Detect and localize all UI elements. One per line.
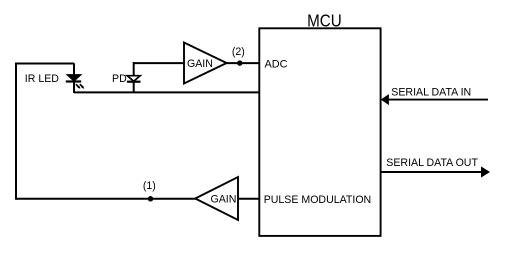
- arrowhead out (serial data out): [481, 166, 490, 177]
- wire MCU pulse modulation to gain amp input: [238, 198, 260, 200]
- arrowhead into MCU (serial data in): [381, 94, 389, 105]
- wire SERIAL DATA IN: [386, 99, 488, 101]
- wire PD cathode to gain amp input: [134, 62, 185, 64]
- svg-text:(1): (1): [143, 180, 156, 192]
- svg-text:ADC: ADC: [265, 58, 288, 70]
- wire gain amp output to ADC: [226, 62, 260, 64]
- photodiode PD: [127, 62, 141, 93]
- MCU box U1: [259, 28, 380, 236]
- svg-text:MCU: MCU: [307, 11, 342, 31]
- svg-text:SERIAL DATA IN: SERIAL DATA IN: [391, 87, 471, 99]
- wire SERIAL DATA OUT: [381, 171, 482, 173]
- wire common bottom line LED/PD to MCU: [74, 91, 260, 93]
- node (1) junction dot: [143, 180, 156, 202]
- svg-text:GAIN: GAIN: [210, 193, 236, 205]
- op-amp GAIN (top, receive amplifier): [184, 43, 227, 84]
- LED IR LED: [66, 63, 84, 93]
- svg-text:(2): (2): [232, 46, 245, 58]
- op-amp GAIN (bottom, drive amplifier): [195, 177, 238, 220]
- svg-text:PD: PD: [112, 73, 127, 85]
- svg-text:IR LED: IR LED: [25, 73, 59, 85]
- node (2) junction dot: [232, 46, 245, 66]
- svg-text:PULSE MODULATION: PULSE MODULATION: [264, 194, 372, 206]
- wire top-left horizontal to IR LED anode: [15, 63, 74, 65]
- wire left vertical feedback line: [15, 63, 17, 200]
- wire gain amp output to left feedback line: [16, 198, 196, 200]
- svg-text:GAIN: GAIN: [187, 58, 213, 70]
- svg-text:SERIAL DATA OUT: SERIAL DATA OUT: [386, 157, 478, 169]
